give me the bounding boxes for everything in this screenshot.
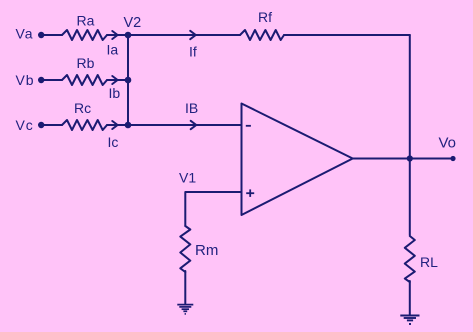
node Vo terminal dot: [450, 156, 455, 161]
wire bus to inverting input: [128, 124, 242, 126]
resistor Rc: [62, 120, 107, 130]
wire Ra to node V2: [107, 34, 128, 36]
node output junction: [407, 155, 413, 161]
resistor Rf: [240, 30, 284, 40]
svg-text:Ib: Ib: [109, 85, 121, 101]
wire output node down to RL: [409, 159, 411, 236]
node Vb terminal dot: [38, 77, 44, 83]
wire V2 to Rf: [128, 34, 240, 36]
wire V1 to non-inverting input: [185, 192, 241, 226]
svg-text:RL: RL: [420, 254, 438, 270]
svg-text:If: If: [189, 44, 197, 60]
svg-text:Ia: Ia: [107, 42, 119, 58]
op-amp U1: [242, 104, 353, 216]
svg-text:Vb: Vb: [16, 72, 35, 88]
node V2 junction: [125, 32, 132, 39]
arrow Ic: [112, 121, 117, 129]
wire RL to ground: [409, 281, 411, 315]
wire Rc to bus: [107, 124, 128, 126]
wire Vb input: [41, 79, 62, 81]
wire Rb to bus: [107, 79, 128, 81]
wire right rail down to output node: [409, 35, 411, 159]
node Vc terminal dot: [38, 122, 44, 128]
wire vertical bus: [127, 35, 129, 125]
svg-text:Va: Va: [16, 26, 34, 42]
arrow IB: [191, 121, 197, 129]
ground (RL): [400, 316, 419, 325]
svg-text:IB: IB: [185, 100, 198, 116]
wire Rm to ground: [184, 271, 186, 304]
svg-text:Rb: Rb: [77, 55, 95, 71]
resistor Ra: [62, 30, 107, 40]
node Va terminal dot: [38, 32, 44, 38]
arrow If: [190, 31, 196, 39]
wire Vc input: [41, 124, 62, 126]
svg-text:Vc: Vc: [16, 117, 34, 133]
wire Rf to right rail: [284, 34, 410, 36]
node junction Rc-bus: [125, 122, 132, 129]
svg-text:Rm: Rm: [195, 242, 218, 259]
svg-text:V1: V1: [179, 170, 196, 186]
wire Va input: [41, 34, 62, 36]
op-amp plus sign: [246, 189, 254, 197]
op-amp minus sign: [246, 125, 251, 127]
svg-text:Ra: Ra: [77, 12, 95, 28]
arrow Ib: [112, 76, 117, 84]
svg-text:Ic: Ic: [108, 134, 119, 150]
resistor RL: [405, 236, 415, 282]
node junction Rb-bus: [125, 77, 132, 84]
svg-text:Vo: Vo: [439, 135, 457, 152]
wire op-amp output: [353, 158, 453, 160]
svg-text:V2: V2: [124, 15, 142, 31]
resistor Rm: [180, 226, 190, 272]
svg-text:Rc: Rc: [74, 100, 91, 116]
svg-text:Rf: Rf: [258, 9, 272, 25]
arrow Ia: [112, 31, 117, 39]
ground (Rm): [177, 305, 193, 314]
resistor Rb: [62, 75, 107, 85]
